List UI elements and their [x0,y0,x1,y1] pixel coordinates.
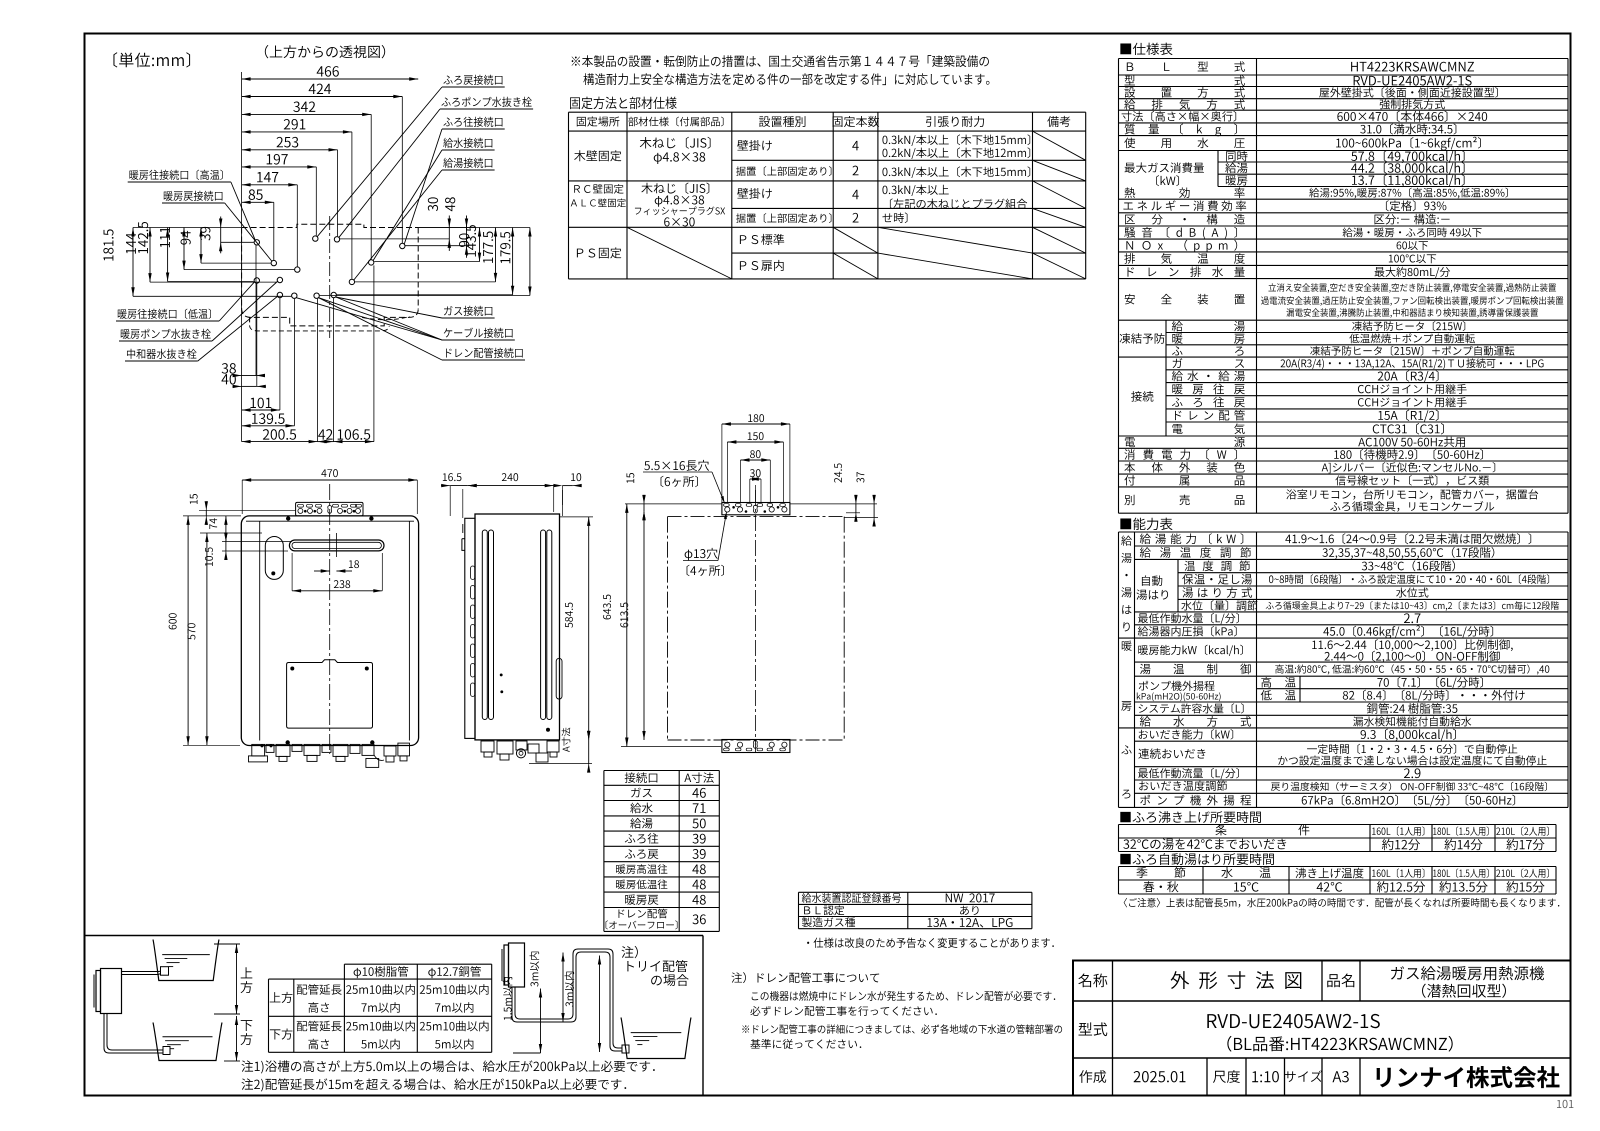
certification table [799,891,1032,893]
connection port size table [604,770,719,772]
spec change note [807,938,1054,948]
capacity table labels [1140,533,1243,544]
top view dashed body outline [242,224,419,227]
side view dim 10 [562,485,572,487]
capacity table header [1120,518,1172,530]
side view dim A [588,740,590,764]
front view dim 74 [225,516,227,542]
back view extension line top [625,503,722,505]
front view dim 600 [187,516,189,745]
top view right small dims 30/48 [448,216,450,251]
caution note [1124,898,1560,908]
title block row3 dividers [1206,1058,1208,1096]
side view bottom connectors [481,741,494,752]
bath auto-fill time table [1119,866,1557,868]
top view right dim extension lines [374,261,479,263]
front view dim 10.5 [225,542,227,552]
lower dim [224,1060,240,1062]
back view keyhole [753,505,757,513]
unit note (tanni:mm) [113,52,190,67]
title block texts [1078,973,1107,987]
back view dashed body [668,516,845,518]
front view dim 570 [206,533,208,745]
torii piping diagram [509,943,525,987]
back view dim 643.5 [626,504,628,747]
torii tub [621,1018,691,1059]
torii dim 3m-2 [599,956,601,1053]
fixing table diagonals [627,227,732,279]
back view dim 613.5 [643,511,645,740]
side view dim 584.5 [588,517,590,740]
top view center line [329,216,331,338]
back view dims above bracket [722,423,790,425]
top view inner dashed lines [249,317,251,325]
spec table header [1120,43,1172,55]
lower bath pipe [104,1014,166,1054]
top view left dim extension lines [133,295,291,297]
upper bath diagram heater [101,969,122,1014]
front view oval window [265,537,283,580]
top view bottom dims right group [318,441,334,443]
front view dim 470 [242,479,417,481]
side view rails [482,530,487,720]
side view body [475,514,560,740]
bath heat-up time table header [1120,811,1261,823]
back view bracket top [722,503,790,515]
front view keyhole [328,506,332,514]
piping length table [344,963,491,965]
top view dim extension lines vertical [401,97,403,244]
top view horizontal dimensions [242,78,419,80]
top view port labels right [443,75,502,85]
top view title [265,45,385,58]
front view remocon bracket [296,502,363,516]
capacity table values [1285,533,1531,544]
top view left vertical dims [132,228,134,297]
regulation note line2 [583,73,989,85]
bath auto-fill time table header [1120,853,1274,865]
drain piping note [731,972,879,983]
spec table label texts [1127,61,1245,72]
front view bottom connectors [252,744,265,756]
spec table values [1351,62,1474,72]
lower bath tub [153,1023,222,1061]
fixing table header [577,116,620,126]
front view slot center mark [335,533,337,557]
fixing table row RC/ALC [574,184,623,194]
page number [1557,1100,1573,1108]
fixing table row wood [574,150,621,161]
back view dims 24.5 / 37 [855,504,857,513]
bottom section divider lines [85,935,704,937]
top view port labels left [129,170,222,180]
top view bottom dims [242,375,256,377]
title block [1073,961,1571,1096]
front view center line [329,484,331,754]
regulation note line1 [572,55,989,67]
capacity table stub labels [1121,536,1132,546]
fixing method table title [570,97,677,109]
front view dim 238 [292,590,382,592]
torii labels [622,946,638,958]
front view top screws [286,517,290,521]
side view handle notch [556,658,562,699]
back view dim 15 [643,504,645,511]
back view bracket bottom [722,740,790,753]
fixing table row PS [577,247,621,258]
upper dim [214,943,240,945]
capacity table grid [1119,531,1569,533]
torii dim 3m-1 [562,953,564,1023]
front view dim 18 [314,570,330,572]
upper bath tub [153,940,219,981]
bath heat-up time table [1119,824,1557,826]
upper bath pipe [122,970,163,972]
front view dim 15 left top [205,510,207,516]
top view ports [254,240,259,245]
torii dim 1.5m [540,989,542,1054]
side view dim 16.5 [450,485,468,487]
top view right vertical dims [479,228,481,262]
front view vent slot [289,540,384,551]
front view lower access panel [287,660,373,728]
side view louver slots [471,566,475,580]
side view small dots [500,674,502,676]
side view dim 240 [468,485,554,487]
spec table grid [1119,58,1569,60]
fixing method table grid [569,111,1086,113]
front view body [241,516,418,746]
side view wall plate [465,518,475,738]
piping notes [242,1060,655,1073]
front view inner panel lines [246,520,414,522]
top view bottom extension lines [241,228,243,442]
back view hole labels [644,460,709,471]
